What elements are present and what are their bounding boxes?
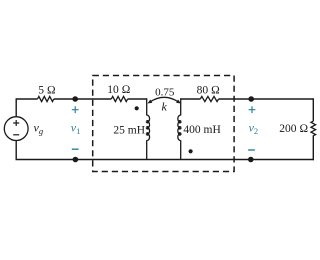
polarity dot L2 (189, 149, 193, 153)
node v2 top (248, 96, 254, 102)
v1 plus sign (72, 106, 79, 113)
wire bottom (16, 159, 315, 161)
resistor 200 ohm (311, 121, 316, 135)
svg-text:10 Ω: 10 Ω (107, 84, 130, 96)
coupling arrowhead left (148, 100, 153, 104)
svg-text:80 Ω: 80 Ω (197, 84, 220, 96)
svg-text:200 Ω: 200 Ω (279, 123, 308, 135)
coupling arrowhead right (176, 100, 181, 104)
node v1 bottom (73, 157, 79, 163)
voltage source vg circle (4, 117, 28, 141)
wire top-left (source to 5 ohm) (16, 98, 37, 100)
svg-text:25 mH: 25 mH (113, 124, 145, 136)
svg-text:k: k (162, 100, 168, 114)
coupling arrow arc k (150, 97, 178, 101)
inductor L2 400 mH (178, 98, 181, 159)
wire right vertical top (312, 98, 314, 121)
wire L2 to 80 ohm (181, 98, 201, 100)
node v1 top (72, 96, 78, 102)
node v2 bottom (248, 157, 254, 163)
v2 minus sign (248, 149, 255, 151)
source plus sign (13, 120, 19, 126)
wire 10 ohm to L1 (128, 98, 147, 100)
resistor 80 ohm (200, 96, 218, 101)
wire left vertical top (15, 98, 17, 116)
svg-text:0.75: 0.75 (155, 87, 175, 99)
wire left vertical bottom (15, 141, 17, 160)
svg-text:400 mH: 400 mH (183, 124, 220, 136)
resistor 5 ohm (38, 96, 54, 101)
wire right vertical bottom (312, 135, 314, 160)
dashed box (coupled-coil network boundary) (93, 76, 234, 172)
inductor L1 25 mH (147, 98, 150, 159)
source minus sign (13, 134, 19, 136)
wire 5 ohm to 10 ohm (54, 98, 112, 100)
v2 plus sign (249, 106, 256, 113)
svg-text:5 Ω: 5 Ω (38, 84, 56, 96)
polarity dot L1 (135, 106, 139, 110)
wire 80 ohm to right edge (219, 98, 314, 100)
resistor 10 ohm (111, 96, 127, 101)
v1 minus sign (72, 148, 79, 150)
